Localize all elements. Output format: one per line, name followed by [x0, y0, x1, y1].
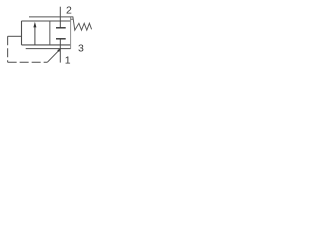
- valve envelope left edge: [21, 21, 23, 45]
- blocked port T upper: [59, 21, 61, 28]
- pilot line horizontal dashed: [8, 61, 48, 63]
- svg-text:1: 1: [65, 54, 71, 66]
- valve envelope bottom edge: [22, 44, 71, 46]
- bottom rail line: [26, 48, 71, 50]
- spring: [73, 17, 92, 30]
- pilot line vertical dashed: [7, 36, 9, 62]
- position divider: [49, 21, 51, 45]
- blocked port T lower: [56, 38, 66, 40]
- valve envelope top edge: [22, 20, 71, 22]
- top rail line: [29, 16, 73, 18]
- svg-text:3: 3: [78, 43, 84, 55]
- svg-text:2: 2: [66, 5, 72, 17]
- port 2 line: [59, 7, 61, 21]
- pilot arrowhead: [57, 49, 60, 53]
- port 1 line: [59, 45, 61, 63]
- valve envelope right edge: [70, 17, 72, 49]
- spring seat step: [71, 18, 73, 20]
- pilot line diagonal: [47, 50, 59, 63]
- flow arrow (open position): [34, 27, 36, 45]
- pilot port line left: [8, 35, 22, 37]
